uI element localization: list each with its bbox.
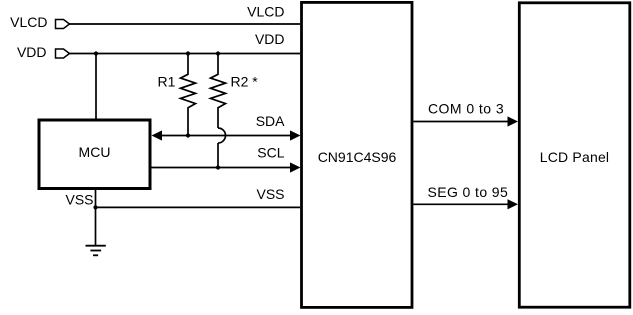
svg-text:VSS: VSS [256, 186, 284, 202]
svg-text:SEG 0 to 95: SEG 0 to 95 [428, 184, 509, 200]
svg-text:VLCD: VLCD [247, 3, 284, 19]
svg-text:COM 0 to 3: COM 0 to 3 [428, 100, 504, 116]
svg-text:R2 *: R2 * [231, 74, 259, 90]
svg-text:VSS: VSS [65, 191, 93, 207]
svg-text:VDD: VDD [255, 31, 285, 47]
svg-text:MCU: MCU [79, 144, 111, 160]
svg-text:SCL: SCL [257, 145, 284, 161]
svg-text:CN91C4S96: CN91C4S96 [318, 149, 397, 165]
svg-text:VLCD: VLCD [10, 14, 47, 30]
svg-text:SDA: SDA [256, 113, 285, 129]
svg-text:VDD: VDD [17, 44, 47, 60]
svg-text:R1: R1 [158, 74, 176, 90]
svg-text:LCD Panel: LCD Panel [540, 149, 610, 165]
